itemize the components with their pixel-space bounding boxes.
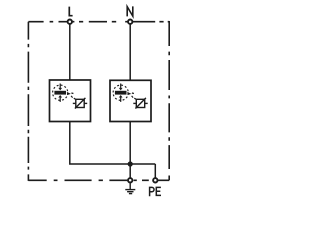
module 2 varistor diagonal (135, 98, 146, 109)
module 1 varistor diagonal (75, 98, 86, 109)
wire module 1 bottom to PE rail (70, 122, 156, 165)
terminal earth (to ground) (128, 178, 132, 182)
module 2 varistor left stub (133, 102, 136, 104)
enclosure border top (dash-dot) (28, 21, 169, 23)
module 2 varistor right stub (145, 102, 148, 104)
module 2 actuator dashed link (132, 93, 136, 99)
enclosure border right (dash-dot) (168, 21, 170, 180)
label N (127, 6, 133, 16)
enclosure border left (dash-dot) (27, 22, 29, 181)
wire L (terminal L to module 1) (69, 24, 71, 80)
module 1 varistor right stub (84, 102, 87, 104)
module 1 lower arrow (58, 95, 62, 102)
module 1 actuator arrow (67, 92, 71, 95)
module 1 varistor left stub (73, 102, 76, 104)
module 1 upper arrow (58, 84, 62, 91)
terminal PE (153, 178, 157, 182)
module 2 actuator arrow (127, 92, 131, 95)
module 2 disconnector dashed circle (113, 85, 128, 100)
wire PE drop (154, 164, 156, 178)
enclosure border bottom (dash-dot) (28, 179, 169, 181)
module 1 varistor square (76, 99, 84, 107)
module 2 disconnector electrode (filled bar) (115, 91, 127, 95)
module 2 lower arrow (119, 95, 123, 102)
module 1 disconnector electrode (filled bar) (54, 91, 66, 95)
wire module 2 bottom to earth terminal (129, 122, 131, 179)
module 2 varistor square (136, 99, 144, 107)
protection module 2 (N path) box (110, 80, 151, 121)
ground symbol (125, 183, 135, 193)
label L (69, 7, 72, 16)
label PE (150, 187, 161, 196)
protection module 1 (L path) box (50, 80, 91, 122)
module 1 actuator dashed link (71, 93, 75, 99)
junction node (128, 161, 133, 166)
terminal N (128, 20, 132, 24)
wire N (terminal N to module 2) (129, 24, 131, 80)
module 2 upper arrow (119, 84, 123, 91)
terminal L (68, 20, 72, 24)
module 1 disconnector dashed circle (53, 85, 68, 100)
